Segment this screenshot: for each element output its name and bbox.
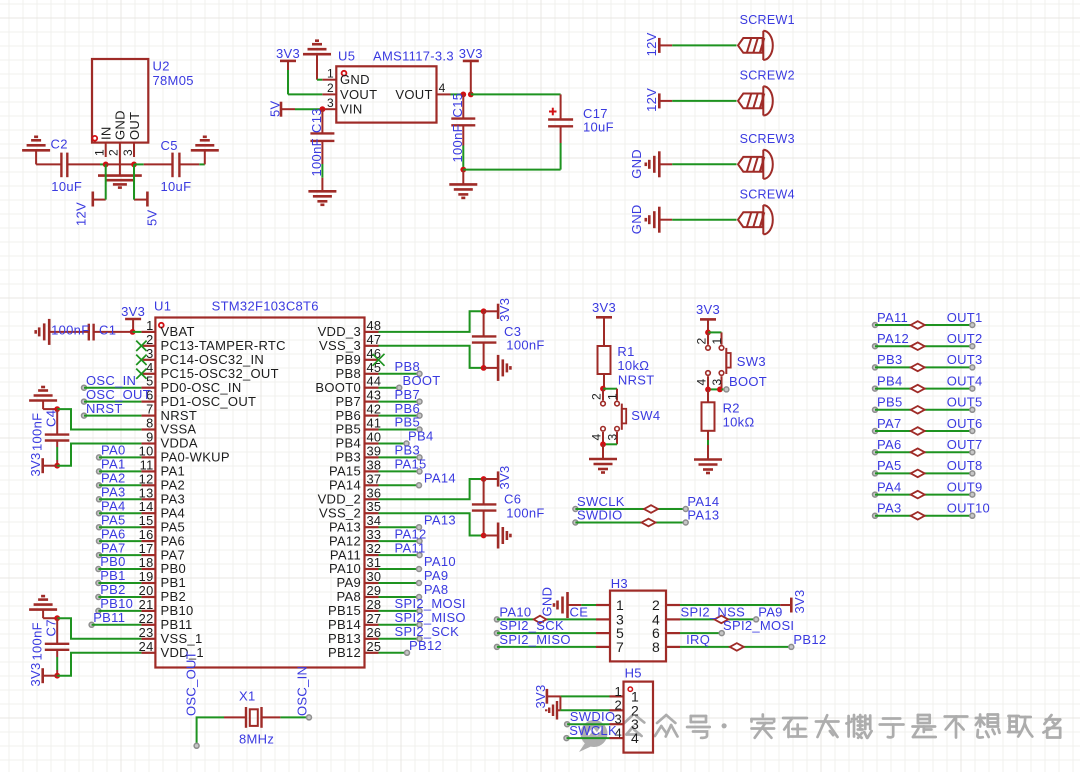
power port 3V3 (U1 VBAT): [121, 304, 145, 332]
svg-text:SPI2_MOSI: SPI2_MOSI: [395, 596, 466, 611]
U1 pin 39 PB3: [336, 443, 382, 464]
svg-text:BOOT: BOOT: [403, 373, 441, 388]
svg-text:PB2: PB2: [100, 582, 125, 597]
power port 3V3 (C6): [484, 465, 512, 489]
U1 pin 21 PB10: [139, 597, 194, 618]
svg-text:GND: GND: [340, 72, 370, 87]
svg-text:SCREW4: SCREW4: [740, 188, 795, 202]
net label PB2 (pin20): [96, 582, 141, 599]
svg-text:SW3: SW3: [737, 354, 766, 369]
svg-text:3V3: 3V3: [696, 302, 720, 317]
svg-text:PB6: PB6: [395, 401, 420, 416]
U5 pin 4: [437, 81, 451, 95]
net label SPI2_MISO (pin27): [379, 610, 466, 627]
svg-text:3V3: 3V3: [592, 300, 616, 315]
svg-text:11: 11: [140, 457, 154, 472]
svg-text:PA7: PA7: [877, 416, 902, 431]
junction SW3 top: [705, 330, 711, 336]
junction C3 bottom: [481, 365, 487, 371]
svg-text:2: 2: [590, 393, 604, 400]
svg-text:PA6: PA6: [161, 533, 186, 548]
U1 pin 25 PB12: [328, 639, 381, 660]
svg-text:1: 1: [146, 318, 153, 333]
svg-text:H3: H3: [611, 576, 628, 591]
junction C15 top: [460, 92, 466, 98]
svg-text:8: 8: [146, 416, 153, 431]
svg-text:100nF: 100nF: [30, 413, 45, 451]
svg-text:10kΩ: 10kΩ: [617, 358, 649, 373]
svg-text:U5: U5: [338, 49, 355, 64]
U1 pin 8 VSSA: [141, 416, 196, 437]
U1 pin 48 VDD_3: [318, 318, 382, 339]
net label PB10 (pin21): [96, 596, 141, 613]
svg-text:23: 23: [139, 625, 154, 640]
svg-text:U1: U1: [154, 299, 171, 314]
capacitor C4 100nF: [30, 409, 70, 466]
ground (C13): [308, 190, 336, 193]
net tie PA4 to OUT9: [873, 479, 983, 498]
svg-text:PB3: PB3: [336, 450, 361, 465]
svg-text:VDD_3: VDD_3: [318, 324, 361, 339]
net label PB3 (pin39): [379, 443, 423, 460]
junction C15 bottom: [460, 167, 466, 173]
svg-text:PA8: PA8: [336, 589, 361, 604]
capacitor C7 100nF: [30, 618, 70, 676]
wire 3V3 node to C17: [471, 93, 561, 95]
svg-text:PB11: PB11: [93, 610, 125, 625]
svg-text:4: 4: [695, 379, 709, 386]
svg-text:PA3: PA3: [877, 501, 902, 516]
svg-text:PB6: PB6: [336, 408, 361, 423]
ground (C7 top): [29, 596, 57, 618]
net label PB12 (pin25): [379, 638, 443, 655]
watermark logo circle: [579, 720, 608, 752]
svg-text:2: 2: [146, 332, 153, 347]
svg-text:3V3: 3V3: [533, 684, 548, 708]
svg-text:SW4: SW4: [631, 408, 660, 423]
svg-text:SPI2_MISO: SPI2_MISO: [499, 632, 570, 647]
power port 12V: [74, 192, 106, 227]
power port 12V (SCREW2): [644, 88, 672, 112]
ground (C3): [484, 355, 511, 381]
U1 pin 22 PB11: [139, 611, 193, 632]
capacitor C15 100nF: [450, 93, 476, 170]
net tie PA3 to OUT10: [873, 501, 991, 520]
net label PA4 (pin14): [97, 498, 142, 515]
svg-text:27: 27: [367, 611, 382, 626]
svg-text:45: 45: [367, 360, 382, 375]
wire 3V3 to U5 pin2: [287, 70, 289, 94]
net label PB5 (pin41): [379, 415, 423, 432]
net label PB1 (pin19): [96, 568, 141, 585]
svg-text:10kΩ: 10kΩ: [723, 415, 755, 430]
screw terminal SCREW2: [738, 69, 795, 116]
svg-text:SCREW1: SCREW1: [740, 13, 795, 27]
svg-text:C1: C1: [99, 323, 116, 338]
svg-text:36: 36: [367, 485, 382, 500]
svg-text:STM32F103C8T6: STM32F103C8T6: [212, 299, 319, 314]
U1 pin 14 PA4: [139, 499, 185, 520]
svg-text:10uF: 10uF: [161, 179, 192, 194]
U1 pin 19 PB1: [139, 569, 186, 590]
svg-text:VSS_3: VSS_3: [319, 338, 361, 353]
wire VDD_3 pin48 to C3 top: [379, 311, 484, 332]
svg-text:3: 3: [327, 96, 334, 110]
power port 3V3 (H3 pin2): [680, 589, 807, 613]
U5 pin 3: [322, 96, 336, 110]
svg-text:PA12: PA12: [877, 331, 909, 346]
junction U2 pin3 node: [131, 162, 137, 168]
capacitor C2 10uF: [36, 137, 100, 195]
resistor R2 10k: [702, 389, 755, 459]
svg-text:PA11: PA11: [877, 310, 908, 325]
header H5 1x4: [610, 666, 654, 753]
svg-text:2: 2: [614, 698, 622, 713]
wire U2 pin3 to C5: [134, 163, 144, 165]
svg-text:PA14: PA14: [329, 478, 361, 493]
svg-text:VOUT: VOUT: [395, 87, 432, 102]
no-connect X pin46: [373, 354, 385, 366]
net label SWCLK (H5 pin4): [564, 723, 617, 741]
svg-text:PA13: PA13: [424, 512, 456, 527]
svg-text:35: 35: [367, 499, 382, 514]
junction SW4 bottom: [600, 441, 606, 447]
U1 pin 47 VSS_3: [319, 332, 381, 353]
svg-text:PB4: PB4: [877, 373, 902, 388]
svg-text:33: 33: [367, 527, 382, 542]
U1 pin 13 PA3: [139, 485, 185, 506]
svg-text:PB3: PB3: [395, 443, 420, 458]
U2 pin 3: [121, 143, 135, 157]
net label SPI2_MISO (H3 pin7): [494, 632, 596, 650]
U1 pin 41 PB5: [336, 416, 382, 437]
svg-text:GND: GND: [629, 204, 644, 234]
junction U2 pin1 node: [103, 162, 109, 168]
svg-text:PA10: PA10: [424, 554, 456, 569]
svg-text:PA2: PA2: [161, 478, 186, 493]
svg-text:AMS1117-3.3: AMS1117-3.3: [373, 49, 454, 64]
svg-text:PB0: PB0: [161, 561, 186, 576]
svg-text:PA7: PA7: [101, 540, 126, 555]
svg-text:OUT6: OUT6: [947, 416, 983, 431]
net tie PB5 to OUT5: [873, 395, 983, 414]
net label PA9 (pin30): [379, 568, 449, 585]
U1 pin 45 PB8: [336, 360, 382, 381]
net tie SPI2_NSS to PA9 (H3 pin4): [680, 604, 783, 623]
U1 pin 38 PA15: [329, 457, 381, 478]
svg-text:PC14-OSC32_IN: PC14-OSC32_IN: [161, 352, 265, 367]
svg-text:OSC_IN: OSC_IN: [295, 666, 310, 716]
svg-text:PB2: PB2: [161, 589, 186, 604]
net label PB8 (pin45): [379, 359, 423, 376]
svg-text:3V3: 3V3: [121, 304, 145, 319]
net label PA10 (pin31): [379, 554, 456, 571]
ground (SW4): [589, 444, 617, 472]
svg-text:PC13-TAMPER-RTC: PC13-TAMPER-RTC: [161, 338, 286, 353]
svg-text:IRQ: IRQ: [686, 632, 710, 647]
svg-text:100nF: 100nF: [506, 338, 544, 353]
svg-text:PB0: PB0: [100, 554, 125, 569]
capacitor C6 100nF: [472, 479, 545, 536]
power port 5V (U5 input): [268, 100, 296, 117]
ground (C1): [48, 319, 51, 345]
svg-text:12: 12: [139, 471, 154, 486]
ground (SCREW4): [629, 204, 672, 234]
svg-text:3V3: 3V3: [497, 465, 512, 489]
U1 pin 5 PD0-OSC_IN: [141, 374, 241, 395]
svg-text:3V3: 3V3: [28, 452, 43, 476]
svg-text:VDDA: VDDA: [161, 436, 198, 451]
U1 pin 6 PD1-OSC_OUT: [141, 388, 256, 409]
U2 pin 2: [107, 143, 121, 165]
svg-text:PA3: PA3: [101, 485, 126, 500]
svg-text:15: 15: [139, 513, 154, 528]
svg-text:PB8: PB8: [395, 359, 420, 374]
svg-text:4: 4: [146, 360, 153, 375]
power port 12V (SCREW1): [644, 32, 672, 56]
svg-text:PA13: PA13: [329, 519, 361, 534]
net label PA3 (pin13): [97, 485, 142, 502]
power port 3V3 (U5 pin2): [276, 46, 300, 70]
power port 3V3 (C3): [484, 298, 512, 322]
ground (U5 pin1): [303, 41, 331, 80]
svg-text:GND: GND: [113, 110, 128, 140]
wire VBAT node to pin1: [133, 331, 142, 333]
power port 3V3 (SW3): [696, 302, 720, 332]
svg-text:CE: CE: [570, 604, 589, 619]
junction R1-SW4: [600, 386, 606, 392]
wire 5V to C13/VIN: [295, 108, 322, 110]
junction C7 top: [54, 615, 60, 621]
U1 pin 24 VDD_1: [139, 639, 204, 660]
svg-text:8MHz: 8MHz: [239, 732, 274, 747]
svg-text:1: 1: [710, 338, 724, 345]
svg-text:1: 1: [327, 67, 334, 81]
svg-text:100nF: 100nF: [506, 505, 544, 520]
wire X1 to OSC_IN: [280, 715, 311, 720]
svg-text:19: 19: [139, 569, 154, 584]
svg-text:PA11: PA11: [395, 540, 426, 555]
svg-text:SCREW3: SCREW3: [740, 132, 795, 146]
svg-text:PB14: PB14: [328, 617, 361, 632]
wire C7 top to VSS_1 pin23: [57, 618, 141, 639]
svg-text:PA0-WKUP: PA0-WKUP: [161, 450, 230, 465]
U1 pin 15 PA5: [139, 513, 185, 534]
svg-text:4: 4: [590, 434, 604, 441]
U1 pin 9 VDDA: [141, 430, 197, 451]
svg-text:18: 18: [139, 555, 154, 570]
U1 pin 26 PB13: [328, 625, 381, 646]
svg-text:VSSA: VSSA: [161, 422, 197, 437]
svg-text:44: 44: [367, 374, 382, 389]
ground (U2 pin2): [98, 164, 142, 187]
net label SPI2_MOSI (pin28): [379, 596, 466, 613]
net tie PA6 to OUT7: [873, 437, 983, 456]
svg-text:SCREW2: SCREW2: [740, 69, 795, 83]
svg-text:SPI2_MOSI: SPI2_MOSI: [723, 618, 794, 633]
svg-text:10: 10: [139, 443, 154, 458]
svg-text:PA15: PA15: [395, 457, 427, 472]
net label PA5 (pin15): [97, 512, 142, 529]
svg-text:SPI2_MISO: SPI2_MISO: [395, 610, 466, 625]
net label OSC_OUT (pin6): [82, 387, 151, 404]
U1 pin 33 PA12: [329, 527, 381, 548]
svg-text:12V: 12V: [644, 88, 659, 112]
U1 pin 29 PA8: [336, 583, 381, 604]
U1 pin 20 PB2: [139, 583, 186, 604]
U1 pin 36 VDD_2: [318, 485, 382, 506]
svg-text:PA12: PA12: [395, 526, 427, 541]
screw terminal SCREW3: [738, 132, 795, 179]
net label OSC_IN (pin5): [82, 373, 142, 390]
wire 3V3 to H5 pin1: [560, 695, 609, 697]
U1 pin 7 NRST: [141, 402, 197, 423]
no-connect X pin3: [136, 355, 146, 365]
svg-text:IN: IN: [99, 126, 114, 140]
net label SPI2_MOSI (H3 pin6): [680, 618, 794, 636]
net tie PA10 to CE (H3 pin3): [494, 604, 596, 623]
net label PA2 (pin12): [97, 471, 142, 488]
svg-text:PB10: PB10: [100, 596, 133, 611]
U1 pin 1 VBAT: [141, 318, 194, 339]
junction C3 top: [481, 308, 487, 314]
svg-text:17: 17: [139, 541, 154, 556]
wire VDD_2 pin36 to C6 top: [379, 479, 484, 499]
svg-text:13: 13: [139, 485, 154, 500]
svg-text:16: 16: [139, 527, 154, 542]
capacitor C1 100nF: [49, 323, 132, 341]
U1 pin 43 PB7: [336, 388, 382, 409]
svg-text:PA13: PA13: [687, 507, 719, 522]
svg-text:PB13: PB13: [328, 631, 361, 646]
junction 3V3 stem node: [468, 92, 474, 98]
ground (left of C2): [22, 137, 50, 165]
net tie SWDIO to PA13: [573, 507, 720, 526]
junction SW3 bottom right: [717, 387, 723, 393]
svg-text:12V: 12V: [74, 202, 89, 226]
regulator U2 78M05: [92, 59, 194, 143]
svg-text:3V3: 3V3: [497, 298, 512, 322]
svg-text:VSS_2: VSS_2: [319, 506, 361, 521]
svg-text:SPI2_SCK: SPI2_SCK: [499, 618, 564, 633]
svg-text:BOOT: BOOT: [729, 374, 767, 389]
net label PA12 (pin33): [379, 526, 427, 543]
U1 pin 18 PB0: [139, 555, 186, 576]
U1 pin 16 PA6: [139, 527, 185, 548]
svg-text:41: 41: [367, 416, 382, 431]
svg-text:PB7: PB7: [336, 394, 361, 409]
capacitor C5 10uF: [161, 138, 205, 194]
U1 pin 3 PC14-OSC32_IN: [141, 346, 264, 367]
capacitor C17 10uF polarized: [548, 94, 614, 169]
power port 3V3 (R1): [592, 300, 616, 346]
net label PB4 (pin40): [379, 429, 434, 446]
svg-text:100nF: 100nF: [450, 124, 465, 162]
svg-text:26: 26: [367, 625, 382, 640]
svg-text:4: 4: [631, 730, 639, 746]
svg-text:GND: GND: [629, 149, 644, 179]
svg-text:21: 21: [139, 597, 154, 612]
svg-text:PA4: PA4: [161, 506, 186, 521]
U1 pin 42 PB6: [336, 402, 382, 423]
svg-text:VSS_1: VSS_1: [161, 631, 203, 646]
net label PA7 (pin17): [97, 540, 142, 557]
svg-text:PA5: PA5: [101, 512, 126, 527]
svg-text:PA8: PA8: [424, 582, 449, 597]
svg-text:PB9: PB9: [336, 352, 361, 367]
header H3 2x4: [596, 576, 680, 661]
capacitor C13 100nF: [309, 108, 335, 191]
net label NRST (pin7): [82, 401, 142, 418]
junction C6 top: [481, 476, 487, 482]
svg-text:VIN: VIN: [340, 102, 363, 117]
resistor R1 10k: [598, 344, 650, 389]
svg-text:C2: C2: [51, 137, 68, 152]
U1 pin 17 PA7: [139, 541, 185, 562]
svg-text:X1: X1: [239, 689, 256, 704]
wire C4 bottom to VDDA pin9: [57, 444, 141, 466]
svg-text:3: 3: [710, 379, 724, 386]
svg-text:4: 4: [439, 81, 446, 95]
net tie PB3 to OUT3: [873, 352, 983, 371]
wire GND to H5 pin2: [560, 709, 609, 711]
junction C4 top: [54, 406, 60, 412]
svg-text:PA5: PA5: [161, 519, 186, 534]
svg-text:PB4: PB4: [408, 429, 433, 444]
wire C2 to U2 pin1: [100, 163, 106, 165]
svg-text:1: 1: [614, 684, 622, 699]
power port 3V3 (C7): [28, 662, 57, 686]
net tie SWCLK to PA14: [573, 494, 720, 513]
capacitor C3 100nF: [472, 311, 545, 368]
svg-text:34: 34: [367, 513, 382, 528]
IC U1 STM32F103C8T6 body: [154, 299, 365, 668]
net label PA8 (pin29): [379, 582, 449, 599]
svg-text:PA15: PA15: [329, 464, 361, 479]
svg-text:SPI2_SCK: SPI2_SCK: [395, 624, 460, 639]
svg-text:48: 48: [367, 318, 382, 333]
svg-text:PA6: PA6: [101, 526, 126, 541]
U1 pin 35 VSS_2: [319, 499, 381, 520]
svg-text:PA14: PA14: [424, 471, 456, 486]
svg-text:OUT10: OUT10: [947, 501, 990, 516]
svg-text:SWDIO: SWDIO: [570, 709, 616, 724]
svg-text:PB5: PB5: [336, 422, 361, 437]
wire VSS_2 pin35 to C6 bottom: [379, 513, 484, 535]
net label PA6 (pin16): [97, 526, 142, 543]
net label SPI2_SCK (H3 pin5): [494, 618, 596, 636]
screw terminal SCREW1: [738, 13, 795, 60]
U1 pin 11 PA1: [140, 457, 185, 478]
svg-text:PA1: PA1: [101, 457, 126, 472]
ground (H5 pin2): [546, 696, 560, 719]
svg-text:PA3: PA3: [161, 492, 186, 507]
svg-text:OUT3: OUT3: [947, 352, 983, 367]
no-connect X pin4: [136, 369, 146, 379]
svg-text:39: 39: [367, 443, 382, 458]
svg-text:PB3: PB3: [877, 352, 902, 367]
svg-text:1: 1: [93, 149, 107, 156]
svg-text:C15: C15: [450, 93, 465, 118]
junction C13/VIN node: [320, 106, 326, 112]
svg-text:OUT2: OUT2: [947, 331, 983, 346]
svg-text:PA7: PA7: [161, 547, 186, 562]
svg-text:28: 28: [367, 597, 382, 612]
U1 pin 31 PA10: [329, 555, 381, 576]
ground (right of C5): [191, 137, 219, 165]
U1 pin 34 PA13: [329, 513, 381, 534]
wire 12V to U2 pin1 node: [105, 164, 107, 199]
